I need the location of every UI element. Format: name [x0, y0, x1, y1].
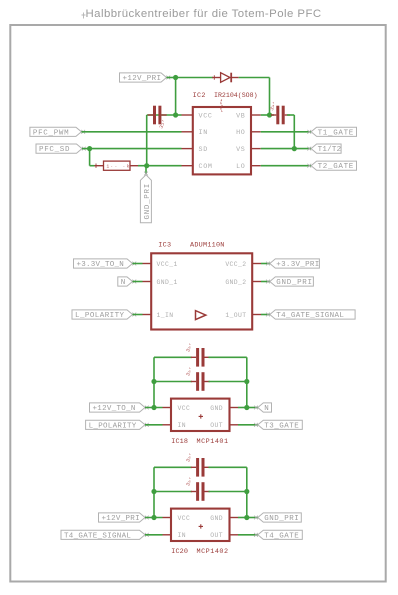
svg-text:N: N [121, 279, 126, 287]
isolator IC3 box [151, 253, 252, 329]
supply flag +12V_TO_N IC18 [90, 403, 149, 413]
svg-text:T1_GATE: T1_GATE [318, 129, 354, 137]
junction cap B left IC18 [151, 379, 156, 384]
svg-text:1·· ·k: 1·· ·k [107, 165, 131, 170]
flag T3_GATE IC18 [254, 420, 302, 430]
junction VB node [267, 112, 272, 117]
svg-text:MCP1402: MCP1402 [197, 548, 229, 556]
wire VCC node to corner [147, 114, 176, 116]
svg-text:3>’: 3>’ [185, 476, 195, 487]
wire OUT to flag T3_GATE IC18 [238, 424, 258, 426]
supply flag +3.3V_TO_N [74, 259, 137, 269]
svg-text:GND_PRI: GND_PRI [144, 183, 152, 219]
pin stub 1_OUT [252, 314, 261, 316]
svg-text:VB: VB [236, 112, 245, 120]
capacitor C2 bootstrap [269, 101, 290, 124]
svg-text:ADUM110N: ADUM110N [190, 241, 225, 249]
svg-text:1_OUT: 1_OUT [225, 312, 246, 319]
label IC2 [193, 92, 206, 100]
pin stub LO [251, 165, 261, 167]
wire PFC_PWM to IN pin [81, 131, 181, 133]
svg-text:GND_1: GND_1 [157, 279, 178, 286]
svg-text:VCC_1: VCC_1 [157, 261, 178, 268]
wire L_POLARITY to pin [133, 314, 143, 316]
pin stub VB [251, 114, 261, 116]
wire top cap rail right IC18 [209, 356, 247, 358]
svg-text:IN: IN [178, 422, 186, 429]
svg-text:1_IN: 1_IN [157, 312, 174, 319]
svg-text:T4_GATE_SIGNAL: T4_GATE_SIGNAL [276, 312, 344, 320]
label MCP1402 [197, 548, 229, 556]
flag T4_GATE IC20 [254, 530, 302, 540]
title origin cross [82, 13, 86, 19]
svg-text:GND: GND [210, 405, 223, 412]
svg-text:IN: IN [178, 532, 186, 539]
driver IC18 box [171, 399, 230, 431]
svg-text:3>’: 3>’ [185, 452, 195, 463]
pin stub IN IC18 [163, 424, 172, 426]
net flag N [118, 277, 136, 287]
label IC20 [171, 548, 188, 556]
wire second cap rail left IC20 [154, 491, 192, 493]
pin stub 1_IN [143, 314, 152, 316]
svg-text:IR2104(SO8): IR2104(SO8) [214, 92, 258, 99]
wire GND to rail IC20 [238, 517, 247, 519]
svg-text:IN: IN [199, 129, 208, 137]
svg-text:MCP1401: MCP1401 [197, 438, 229, 446]
junction cap B right IC20 [244, 489, 249, 494]
svg-text:+3.3V_TO_N: +3.3V_TO_N [77, 261, 125, 269]
svg-text:Halbbrückentreiber für die Tot: Halbbrückentreiber für die Totem-Pole PF… [86, 8, 322, 20]
pin stub IN IC20 [163, 534, 172, 536]
pin stub SD [182, 148, 194, 150]
svg-text:+12V_PRI: +12V_PRI [102, 515, 140, 523]
pin stub GND IC18 [230, 407, 239, 409]
junction GND rail IC18 [244, 405, 249, 410]
wire cap C2 to corner [287, 114, 294, 116]
wire T4_GATE_SIGNAL to IN IC20 [145, 534, 163, 536]
wire diode cathode to VB drop [239, 77, 270, 79]
ground flag GND_PRI [266, 277, 313, 287]
junction VCC node [173, 112, 178, 117]
wire OUT to flag T4_GATE IC20 [238, 534, 258, 536]
pin stub OUT IC18 [230, 424, 239, 426]
pin stub VCC_1 [143, 263, 152, 265]
output flag T1_GATE [307, 127, 356, 137]
title text [86, 8, 322, 20]
op-amp driver IC2 box [193, 107, 251, 174]
wire second cap rail left IC18 [154, 381, 192, 383]
svg-text:GND_PRI: GND_PRI [264, 515, 299, 523]
pin stub GND IC20 [230, 517, 239, 519]
pin stub HO [251, 131, 261, 133]
svg-text:L_POLARITY: L_POLARITY [75, 312, 125, 320]
wire PFC_SD junction to SD pin [90, 148, 182, 150]
svg-text:HO: HO [236, 129, 245, 137]
svg-text:VCC: VCC [178, 405, 191, 412]
pin stub VCC IC20 [163, 517, 172, 519]
wire left vertical rail IC18 [153, 357, 155, 407]
svg-text:T4_GATE: T4_GATE [264, 532, 299, 540]
wire GND to rail IC18 [238, 407, 247, 409]
pin stub OUT IC20 [230, 534, 239, 536]
wire 1_OUT to flag [261, 314, 270, 316]
svg-text:+12V_TO_N: +12V_TO_N [93, 405, 136, 413]
capacitor bypass B IC20 [185, 476, 210, 500]
label ADUM110N [190, 241, 225, 249]
wire second cap rail right IC20 [209, 491, 247, 493]
input flag PFC_SD [36, 144, 86, 154]
svg-text:PFC_SD: PFC_SD [39, 146, 70, 154]
pin stub COM [182, 165, 194, 167]
svg-text:COM: COM [199, 163, 213, 171]
wire VB junction to cap C2 [270, 114, 275, 116]
flag GND_PRI IC20 [254, 513, 301, 523]
wire right vertical rail IC18 [246, 357, 248, 407]
svg-text:VS: VS [236, 146, 245, 154]
svg-text:3>’: 3>’ [185, 366, 195, 377]
svg-text:GND: GND [210, 515, 223, 522]
output flag T4_GATE_SIGNAL [266, 310, 355, 320]
capacitor bypass A IC18 [185, 342, 210, 366]
input flag T4_GATE_SIGNAL IC20 [61, 530, 149, 540]
wire +12V_TO_N to VCC IC18 [145, 407, 163, 409]
svg-text:PFC_PWM: PFC_PWM [33, 129, 69, 137]
wire left vertical rail IC20 [153, 467, 155, 517]
supply flag +3.3V_PRI [266, 259, 319, 269]
junction +12V_PRI node [173, 75, 178, 80]
wire top cap rail right IC20 [209, 466, 247, 468]
supply flag +12V_PRI [120, 73, 171, 83]
label IC18 [171, 438, 188, 446]
wire +12V_PRI flag to junction [167, 77, 176, 79]
svg-text:T4_GATE_SIGNAL: T4_GATE_SIGNAL [64, 532, 131, 540]
label IR2104(SO8) [214, 92, 258, 99]
pin stub VCC [182, 114, 194, 116]
svg-text:IC2: IC2 [193, 92, 206, 100]
svg-text:N: N [264, 405, 269, 413]
wire +12V_PRI to VCC IC20 [145, 517, 163, 519]
input flag L_POLARITY IC18 [86, 420, 149, 430]
wire L_POLARITY to IN IC18 [145, 424, 163, 426]
wire VS to T1/T2 [261, 148, 311, 150]
svg-text:+3.3V_PRI: +3.3V_PRI [276, 261, 319, 269]
junction VS node [292, 146, 297, 151]
wire cap C2 drop to VS [293, 115, 295, 149]
wire +3.3V_TO_N to pin [133, 263, 143, 265]
label MCP1401 [197, 438, 229, 446]
wire top cap rail left IC20 [154, 466, 192, 468]
svg-text:VCC: VCC [178, 515, 191, 522]
junction cap B left IC20 [151, 489, 156, 494]
supply flag +12V_PRI IC20 [99, 513, 149, 523]
wire top cap rail left IC18 [154, 356, 192, 358]
junction COM node [144, 163, 149, 168]
wire VCC_2 to flag [261, 263, 270, 265]
label IC3 [158, 241, 171, 249]
input flag L_POLARITY [72, 310, 136, 320]
ground flag GND_PRI vertical [140, 166, 151, 223]
svg-text:T3_GATE: T3_GATE [264, 422, 299, 430]
wire N to pin [133, 281, 143, 283]
svg-text:GND_2: GND_2 [225, 279, 246, 286]
resistor R1 pulldown [90, 161, 147, 170]
svg-text:VCC: VCC [199, 112, 213, 120]
diode D1 bootstrap [212, 73, 239, 83]
wire rail to flag GND_PRI IC20 [247, 517, 258, 519]
junction VCC rail IC18 [151, 405, 156, 410]
svg-text:IC18: IC18 [171, 438, 188, 446]
IC2 origin mark [221, 100, 222, 112]
pin stub VCC_2 [252, 263, 261, 265]
capacitor bypass A IC20 [185, 452, 210, 476]
svg-text:T1/T2: T1/T2 [318, 146, 342, 154]
wire VB stub to junction [261, 114, 270, 116]
svg-text:VCC_2: VCC_2 [225, 261, 246, 268]
wire SD branch down to resistor [89, 149, 91, 166]
wire VCC junction to pin [176, 114, 182, 116]
wire vertical drop to VB node [269, 78, 271, 116]
svg-text:GND_PRI: GND_PRI [276, 279, 312, 287]
pin stub IN [182, 131, 194, 133]
svg-text:L_POLARITY: L_POLARITY [89, 422, 137, 430]
output flag T2_GATE [307, 161, 356, 171]
wire rail to flag N IC18 [247, 407, 258, 409]
wire COM junction to pin [147, 165, 182, 167]
wire vertical +12V to VCC node [175, 78, 177, 116]
wire PFC_SD to junction [82, 148, 90, 150]
pin stub GND_2 [252, 281, 261, 283]
junction GND rail IC20 [244, 515, 249, 520]
pin stub VCC IC18 [163, 407, 172, 409]
svg-text:IC3: IC3 [158, 241, 171, 249]
svg-text:LO: LO [236, 163, 245, 171]
pin stub VS [251, 148, 261, 150]
wire +12V_PRI to diode anode [176, 77, 213, 79]
svg-text:3>’: 3>’ [185, 342, 195, 353]
junction VCC rail IC20 [151, 515, 156, 520]
wire second cap rail right IC18 [209, 381, 247, 383]
svg-text:OUT: OUT [210, 422, 223, 429]
capacitor C1 VCC bypass [148, 106, 168, 130]
driver IC20 box [171, 509, 230, 541]
input flag PFC_PWM [30, 127, 85, 137]
flag N IC18 [254, 403, 271, 413]
wire HO to T1_GATE [261, 131, 311, 133]
junction PFC_SD node [87, 146, 92, 151]
capacitor bypass B IC18 [185, 366, 210, 390]
svg-text:SD: SD [199, 146, 208, 154]
pin stub GND_1 [143, 281, 152, 283]
svg-text:+12V_PRI: +12V_PRI [123, 75, 162, 83]
wire right vertical rail IC20 [246, 467, 248, 517]
svg-text:T2_GATE: T2_GATE [318, 163, 354, 171]
wire GND_2 to flag [261, 281, 270, 283]
junction cap B right IC18 [244, 379, 249, 384]
wire cap C1 down to COM rail [146, 115, 148, 166]
svg-text:OUT: OUT [210, 532, 223, 539]
svg-text:IC20: IC20 [171, 548, 188, 556]
wire LO to T2_GATE [261, 165, 311, 167]
output flag T1/T2 [307, 144, 341, 154]
